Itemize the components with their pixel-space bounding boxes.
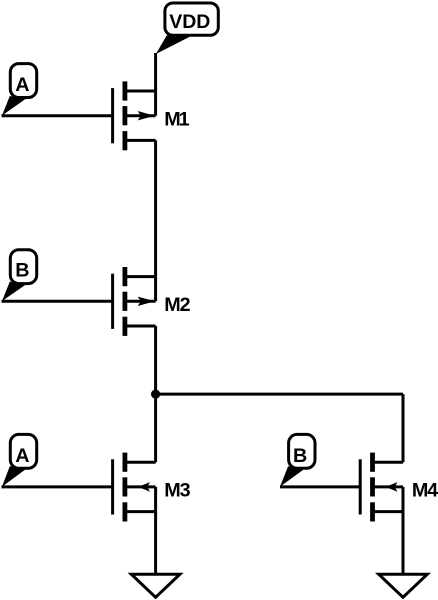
- svg-text:B: B: [293, 445, 307, 467]
- wire M1 drain to M2 source: [154, 140, 157, 276]
- junction dot output node: [151, 390, 160, 399]
- ground symbol (M4 source): [379, 574, 428, 597]
- nmos transistor M3: [113, 453, 156, 522]
- svg-text:M3: M3: [164, 480, 190, 502]
- nmos transistor M4: [360, 453, 403, 522]
- wire M4 bulk/source to ground: [402, 487, 405, 574]
- svg-text:M2: M2: [164, 294, 190, 316]
- wire output node to M4 drain (horizontal): [156, 393, 403, 396]
- svg-text:A: A: [15, 74, 29, 96]
- wire input A to M1 gate: [2, 114, 113, 117]
- wire M2 drain to output node and M3 drain: [154, 326, 157, 462]
- power flag VDD: [156, 3, 218, 54]
- wire M3 bulk/source to ground: [154, 487, 157, 574]
- wire VDD to M1 source (and M1 bulk tie): [154, 53, 157, 116]
- net flag B (M2 gate input): [2, 250, 37, 301]
- svg-text:A: A: [15, 445, 29, 467]
- ground symbol (M3 source): [131, 574, 180, 597]
- wire M2 bulk tie (source to bulk vertical): [154, 277, 157, 302]
- svg-text:VDD: VDD: [169, 11, 210, 33]
- pmos transistor M2: [113, 267, 156, 336]
- svg-text:M4: M4: [412, 480, 438, 502]
- wire input B to M2 gate: [2, 300, 113, 303]
- pmos transistor M1: [113, 81, 156, 150]
- wire input A to M3 gate: [2, 485, 113, 488]
- wire down to M4 drain (vertical): [402, 394, 405, 462]
- wire input B to M4 gate: [280, 485, 360, 488]
- net flag A (M1 gate input): [2, 64, 37, 116]
- svg-text:M1: M1: [164, 108, 189, 130]
- net flag B (M4 gate input): [280, 434, 315, 486]
- svg-text:B: B: [15, 260, 29, 282]
- net flag A (M3 gate input): [2, 434, 37, 486]
